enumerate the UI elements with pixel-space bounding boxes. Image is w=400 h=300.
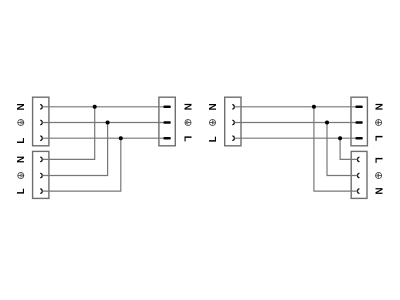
svg-text:L: L — [208, 136, 219, 142]
svg-text:N: N — [372, 188, 383, 195]
J3 contact pin 3 (L, female) — [233, 136, 235, 140]
svg-text:N: N — [372, 103, 383, 110]
P2 contact pin 1 (N, male) — [355, 106, 363, 109]
wire PE: J1 pin2 to P1 pin2 — [42, 122, 163, 124]
wire N branch: junction down/left to J2 pin1 — [42, 107, 94, 160]
junction dot N — [93, 105, 97, 109]
P1 contact pin 3 (L, male) — [163, 137, 171, 140]
socket J2 (lower-left female connector body) — [33, 151, 49, 198]
P1 contact pin 1 (N, male) — [163, 106, 171, 109]
wire L branch: junction down/left to J2 pin3 — [42, 138, 121, 191]
socket J4 (lower-right female connector body, flipped) — [351, 151, 367, 198]
label PE (P2 pin2) — [376, 119, 382, 125]
J4 contact pin 1 (L, female mirrored) — [357, 157, 359, 161]
svg-text:N: N — [16, 103, 27, 110]
wire PE: J3 pin2 to P2 pin2 — [234, 122, 355, 124]
junction dot L — [119, 136, 123, 140]
J3 contact pin 2 (PE, female) — [233, 120, 235, 124]
svg-text:L: L — [182, 136, 193, 142]
plug P2 (upper-right male connector body) — [351, 97, 367, 146]
svg-text:N: N — [16, 156, 27, 163]
J2 contact pin 3 (L, female) — [41, 189, 43, 193]
wire N: J3 pin1 to P2 pin1 — [234, 106, 355, 108]
junction dot L (right) — [338, 136, 342, 140]
junction dot PE (right) — [325, 121, 329, 125]
wire N: J1 pin1 to P1 pin1 — [42, 106, 163, 108]
P1 contact pin 2 (PE, male) — [163, 121, 171, 124]
socket J3 (left female connector body) — [225, 97, 241, 146]
J4 contact pin 2 (PE, female mirrored) — [357, 173, 359, 177]
svg-text:N: N — [208, 103, 219, 110]
J1 contact pin 2 (PE, female) — [41, 120, 43, 124]
wire N branch: junction down/right to J4 pin3 — [314, 107, 358, 191]
P2 contact pin 2 (PE, male) — [355, 121, 363, 124]
J3 contact pin 1 (N, female) — [233, 105, 235, 109]
J2 contact pin 2 (PE, female) — [41, 173, 43, 177]
socket J1 (upper-left female connector body) — [33, 97, 49, 146]
P2 contact pin 3 (L, male) — [355, 137, 363, 140]
wire PE branch: junction down/right to J4 pin2 — [327, 123, 357, 176]
label PE (J2 pin2) — [18, 172, 24, 178]
junction dot PE — [106, 121, 110, 125]
label PE (P1 pin2) — [185, 119, 191, 125]
J2 contact pin 1 (N, female) — [41, 157, 43, 161]
J1 contact pin 3 (L, female) — [41, 136, 43, 140]
label PE (J4 pin2) — [376, 172, 382, 178]
junction dot N (right) — [312, 105, 316, 109]
svg-text:N: N — [182, 103, 193, 110]
wire L branch: junction down/right to J4 pin1 — [340, 138, 357, 159]
wire PE branch: junction down/left to J2 pin2 — [42, 123, 107, 176]
svg-text:L: L — [372, 135, 383, 141]
svg-text:L: L — [16, 188, 27, 194]
wire L: J1 pin3 to P1 pin3 — [42, 137, 163, 139]
plug P1 (right male connector body) — [159, 97, 175, 146]
svg-text:L: L — [16, 138, 27, 144]
J1 contact pin 1 (N, female) — [41, 105, 43, 109]
J4 contact pin 3 (N, female mirrored) — [357, 189, 359, 193]
label PE (J3 pin2) — [209, 119, 215, 125]
wire L: J3 pin3 to P2 pin3 — [234, 137, 355, 139]
svg-text:L: L — [372, 157, 383, 163]
label PE (J1 pin2) — [18, 119, 24, 125]
